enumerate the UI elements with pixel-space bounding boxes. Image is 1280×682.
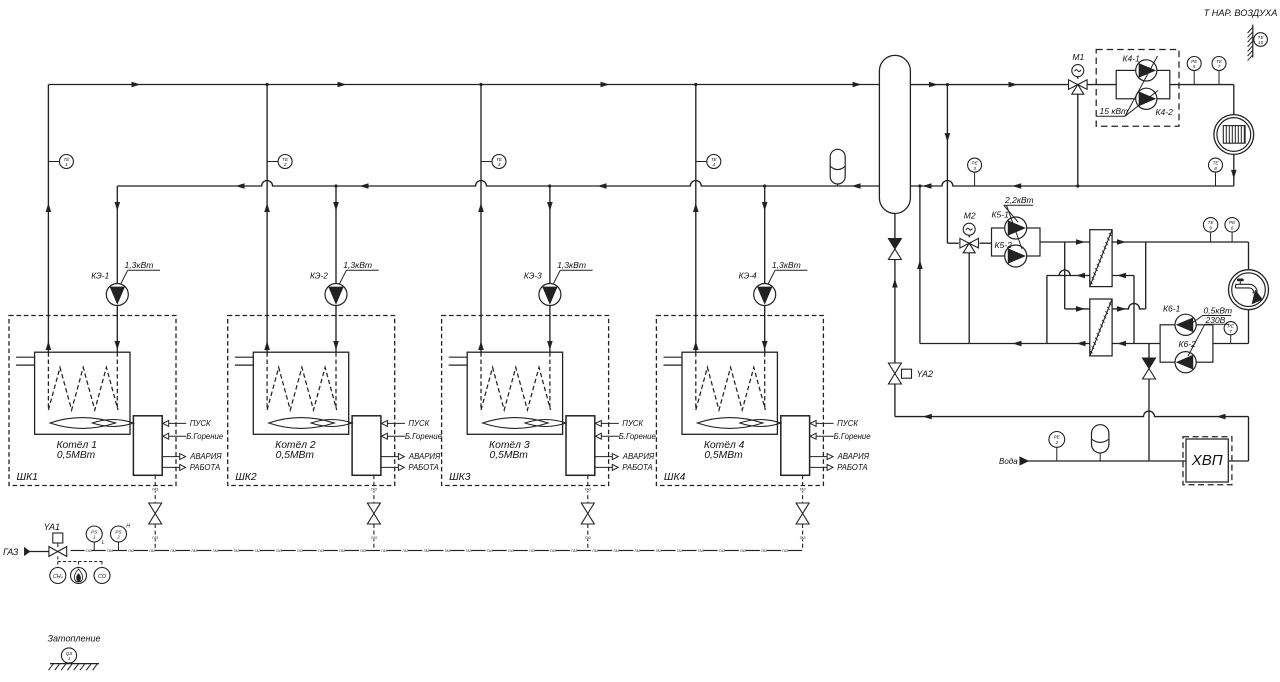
svg-text:7: 7 xyxy=(1218,64,1221,69)
svg-text:Б.Горение: Б.Горение xyxy=(834,432,872,441)
svg-text:15 кВт: 15 кВт xyxy=(1100,106,1129,116)
svg-text:ШК4: ШК4 xyxy=(664,472,686,483)
svg-text:ГАЗ: ГАЗ xyxy=(508,549,515,553)
svg-text:1,3кВт: 1,3кВт xyxy=(125,260,154,270)
svg-text:230В: 230В xyxy=(1205,315,1226,325)
svg-text:5: 5 xyxy=(1193,64,1196,69)
svg-text:QS: QS xyxy=(66,651,74,656)
svg-text:PS: PS xyxy=(91,529,98,534)
svg-text:АВАРИЯ: АВАРИЯ xyxy=(408,452,441,461)
svg-text:ГАЗ: ГАЗ xyxy=(149,549,156,553)
svg-text:Затопление: Затопление xyxy=(48,634,101,644)
svg-text:ГАЗ: ГАЗ xyxy=(487,549,494,553)
svg-text:Т НАР. ВОЗДУХА: Т НАР. ВОЗДУХА xyxy=(1204,8,1278,18)
svg-text:1,3кВт: 1,3кВт xyxy=(343,260,372,270)
svg-text:ТЕ: ТЕ xyxy=(711,157,718,162)
svg-text:4: 4 xyxy=(713,162,716,167)
svg-text:ГАЗ: ГАЗ xyxy=(656,549,663,553)
svg-text:8: 8 xyxy=(1214,166,1217,171)
svg-text:10: 10 xyxy=(1258,40,1264,45)
svg-text:ГАЗ: ГАЗ xyxy=(152,536,159,540)
svg-text:1: 1 xyxy=(65,162,68,167)
svg-text:Б.Горение: Б.Горение xyxy=(619,432,657,441)
svg-text:Б.Горение: Б.Горение xyxy=(405,432,443,441)
svg-text:ГАЗ: ГАЗ xyxy=(128,549,135,553)
svg-text:К6-1: К6-1 xyxy=(1163,304,1181,314)
svg-text:ПУСК: ПУСК xyxy=(837,419,858,428)
svg-text:АВАРИЯ: АВАРИЯ xyxy=(622,452,655,461)
svg-text:ТЕ: ТЕ xyxy=(1258,35,1265,40)
svg-text:ГАЗ: ГАЗ xyxy=(800,536,807,540)
svg-text:H: H xyxy=(126,524,130,530)
svg-text:ГАЗ: ГАЗ xyxy=(550,549,557,553)
svg-text:CO: CO xyxy=(98,574,107,580)
svg-text:ГАЗ: ГАЗ xyxy=(445,549,452,553)
svg-text:К5-2: К5-2 xyxy=(995,240,1013,250)
svg-text:ШК1: ШК1 xyxy=(17,472,38,483)
svg-text:0,5МВт: 0,5МВт xyxy=(276,450,315,461)
svg-text:ШК2: ШК2 xyxy=(235,472,257,483)
svg-text:К5-1: К5-1 xyxy=(992,210,1010,220)
svg-text:М1: М1 xyxy=(1072,52,1084,62)
svg-text:ГАЗ: ГАЗ xyxy=(740,549,747,553)
svg-text:ГАЗ: ГАЗ xyxy=(614,549,621,553)
svg-text:ГАЗ: ГАЗ xyxy=(381,549,388,553)
svg-text:КЭ-2: КЭ-2 xyxy=(310,270,328,280)
svg-text:ГАЗ: ГАЗ xyxy=(571,549,578,553)
svg-text:РАБОТА: РАБОТА xyxy=(408,463,438,472)
svg-text:ГАЗ: ГАЗ xyxy=(371,536,378,540)
svg-text:К4-2: К4-2 xyxy=(1156,107,1174,117)
svg-text:ТЕ: ТЕ xyxy=(63,157,70,162)
svg-text:ГАЗ: ГАЗ xyxy=(635,549,642,553)
svg-text:ГАЗ: ГАЗ xyxy=(585,536,592,540)
svg-text:L: L xyxy=(102,540,105,546)
svg-text:ГАЗ: ГАЗ xyxy=(152,488,159,492)
svg-text:ПУСК: ПУСК xyxy=(190,419,211,428)
svg-text:ГАЗ: ГАЗ xyxy=(255,549,262,553)
svg-text:Вода: Вода xyxy=(999,457,1018,466)
svg-text:ГАЗ: ГАЗ xyxy=(403,549,410,553)
svg-text:1,3кВт: 1,3кВт xyxy=(557,260,586,270)
svg-text:ГАЗ: ГАЗ xyxy=(318,549,325,553)
svg-text:ГАЗ: ГАЗ xyxy=(424,549,431,553)
svg-text:К6-2: К6-2 xyxy=(1179,339,1197,349)
svg-text:ГАЗ: ГАЗ xyxy=(466,549,473,553)
svg-text:ГАЗ: ГАЗ xyxy=(677,549,684,553)
svg-text:ГАЗ: ГАЗ xyxy=(213,549,220,553)
svg-text:3: 3 xyxy=(973,166,976,171)
svg-text:ГАЗ: ГАЗ xyxy=(592,549,599,553)
svg-text:2: 2 xyxy=(116,535,120,540)
svg-text:YA1: YA1 xyxy=(44,522,61,532)
svg-text:К4-1: К4-1 xyxy=(1123,53,1141,63)
svg-text:ГАЗ: ГАЗ xyxy=(86,549,93,553)
svg-text:PE: PE xyxy=(1054,435,1061,440)
svg-text:АВАРИЯ: АВАРИЯ xyxy=(837,452,870,461)
svg-text:2,2кВт: 2,2кВт xyxy=(1004,195,1034,205)
svg-text:РАБОТА: РАБОТА xyxy=(190,463,220,472)
svg-text:ТЕ: ТЕ xyxy=(1216,59,1223,64)
svg-text:ГАЗ: ГАЗ xyxy=(276,549,283,553)
svg-text:ГАЗ: ГАЗ xyxy=(761,549,768,553)
svg-text:ГАЗ: ГАЗ xyxy=(585,488,592,492)
svg-text:ГАЗ: ГАЗ xyxy=(170,549,177,553)
svg-text:ТЕ: ТЕ xyxy=(1208,220,1215,225)
svg-text:ГАЗ: ГАЗ xyxy=(529,549,536,553)
svg-text:КЭ-1: КЭ-1 xyxy=(91,270,109,280)
svg-text:ГАЗ: ГАЗ xyxy=(234,549,241,553)
svg-text:ГАЗ: ГАЗ xyxy=(107,549,114,553)
svg-text:ТЕ: ТЕ xyxy=(282,157,289,162)
svg-text:ГАЗ: ГАЗ xyxy=(360,549,367,553)
svg-text:6: 6 xyxy=(1231,226,1234,231)
svg-text:ГАЗ: ГАЗ xyxy=(719,549,726,553)
svg-text:Б.Горение: Б.Горение xyxy=(186,432,224,441)
svg-text:ТЕ: ТЕ xyxy=(496,157,503,162)
svg-text:ГАЗ: ГАЗ xyxy=(3,547,19,557)
svg-text:ГАЗ: ГАЗ xyxy=(371,488,378,492)
svg-text:КЭ-4: КЭ-4 xyxy=(739,270,757,280)
svg-text:ТЕ: ТЕ xyxy=(1213,160,1220,165)
svg-text:0,5МВт: 0,5МВт xyxy=(57,450,96,461)
svg-text:КЭ-3: КЭ-3 xyxy=(524,270,542,280)
svg-text:9: 9 xyxy=(1209,226,1212,231)
svg-text:ШК3: ШК3 xyxy=(449,472,471,483)
svg-text:PE: PE xyxy=(972,160,979,165)
svg-text:0,5МВт: 0,5МВт xyxy=(704,450,743,461)
svg-text:ГАЗ: ГАЗ xyxy=(339,549,346,553)
svg-text:РАБОТА: РАБОТА xyxy=(622,463,652,472)
svg-text:ПУСК: ПУСК xyxy=(408,419,429,428)
svg-text:2: 2 xyxy=(1055,440,1059,445)
svg-text:PE: PE xyxy=(1229,220,1236,225)
svg-text:YA2: YA2 xyxy=(917,369,934,379)
svg-text:ГАЗ: ГАЗ xyxy=(192,549,199,553)
svg-text:ПУСК: ПУСК xyxy=(622,419,643,428)
svg-text:2: 2 xyxy=(283,162,287,167)
svg-text:ГАЗ: ГАЗ xyxy=(800,488,807,492)
svg-text:ГАЗ: ГАЗ xyxy=(698,549,705,553)
svg-text:ГАЗ: ГАЗ xyxy=(297,549,304,553)
svg-text:АВАРИЯ: АВАРИЯ xyxy=(189,452,222,461)
svg-text:М2: М2 xyxy=(964,211,976,221)
svg-text:0,5МВт: 0,5МВт xyxy=(490,450,529,461)
svg-text:РАБОТА: РАБОТА xyxy=(837,463,867,472)
svg-text:3: 3 xyxy=(498,162,501,167)
svg-text:1: 1 xyxy=(68,656,71,661)
svg-text:PS: PS xyxy=(115,529,122,534)
svg-text:1,3кВт: 1,3кВт xyxy=(772,260,801,270)
svg-text:ХВП: ХВП xyxy=(1191,452,1223,469)
svg-text:PE: PE xyxy=(1191,59,1198,64)
svg-text:7: 7 xyxy=(1229,329,1232,334)
svg-text:ГАЗ: ГАЗ xyxy=(782,549,789,553)
svg-text:CH₄: CH₄ xyxy=(53,574,63,580)
svg-text:1: 1 xyxy=(93,535,96,540)
